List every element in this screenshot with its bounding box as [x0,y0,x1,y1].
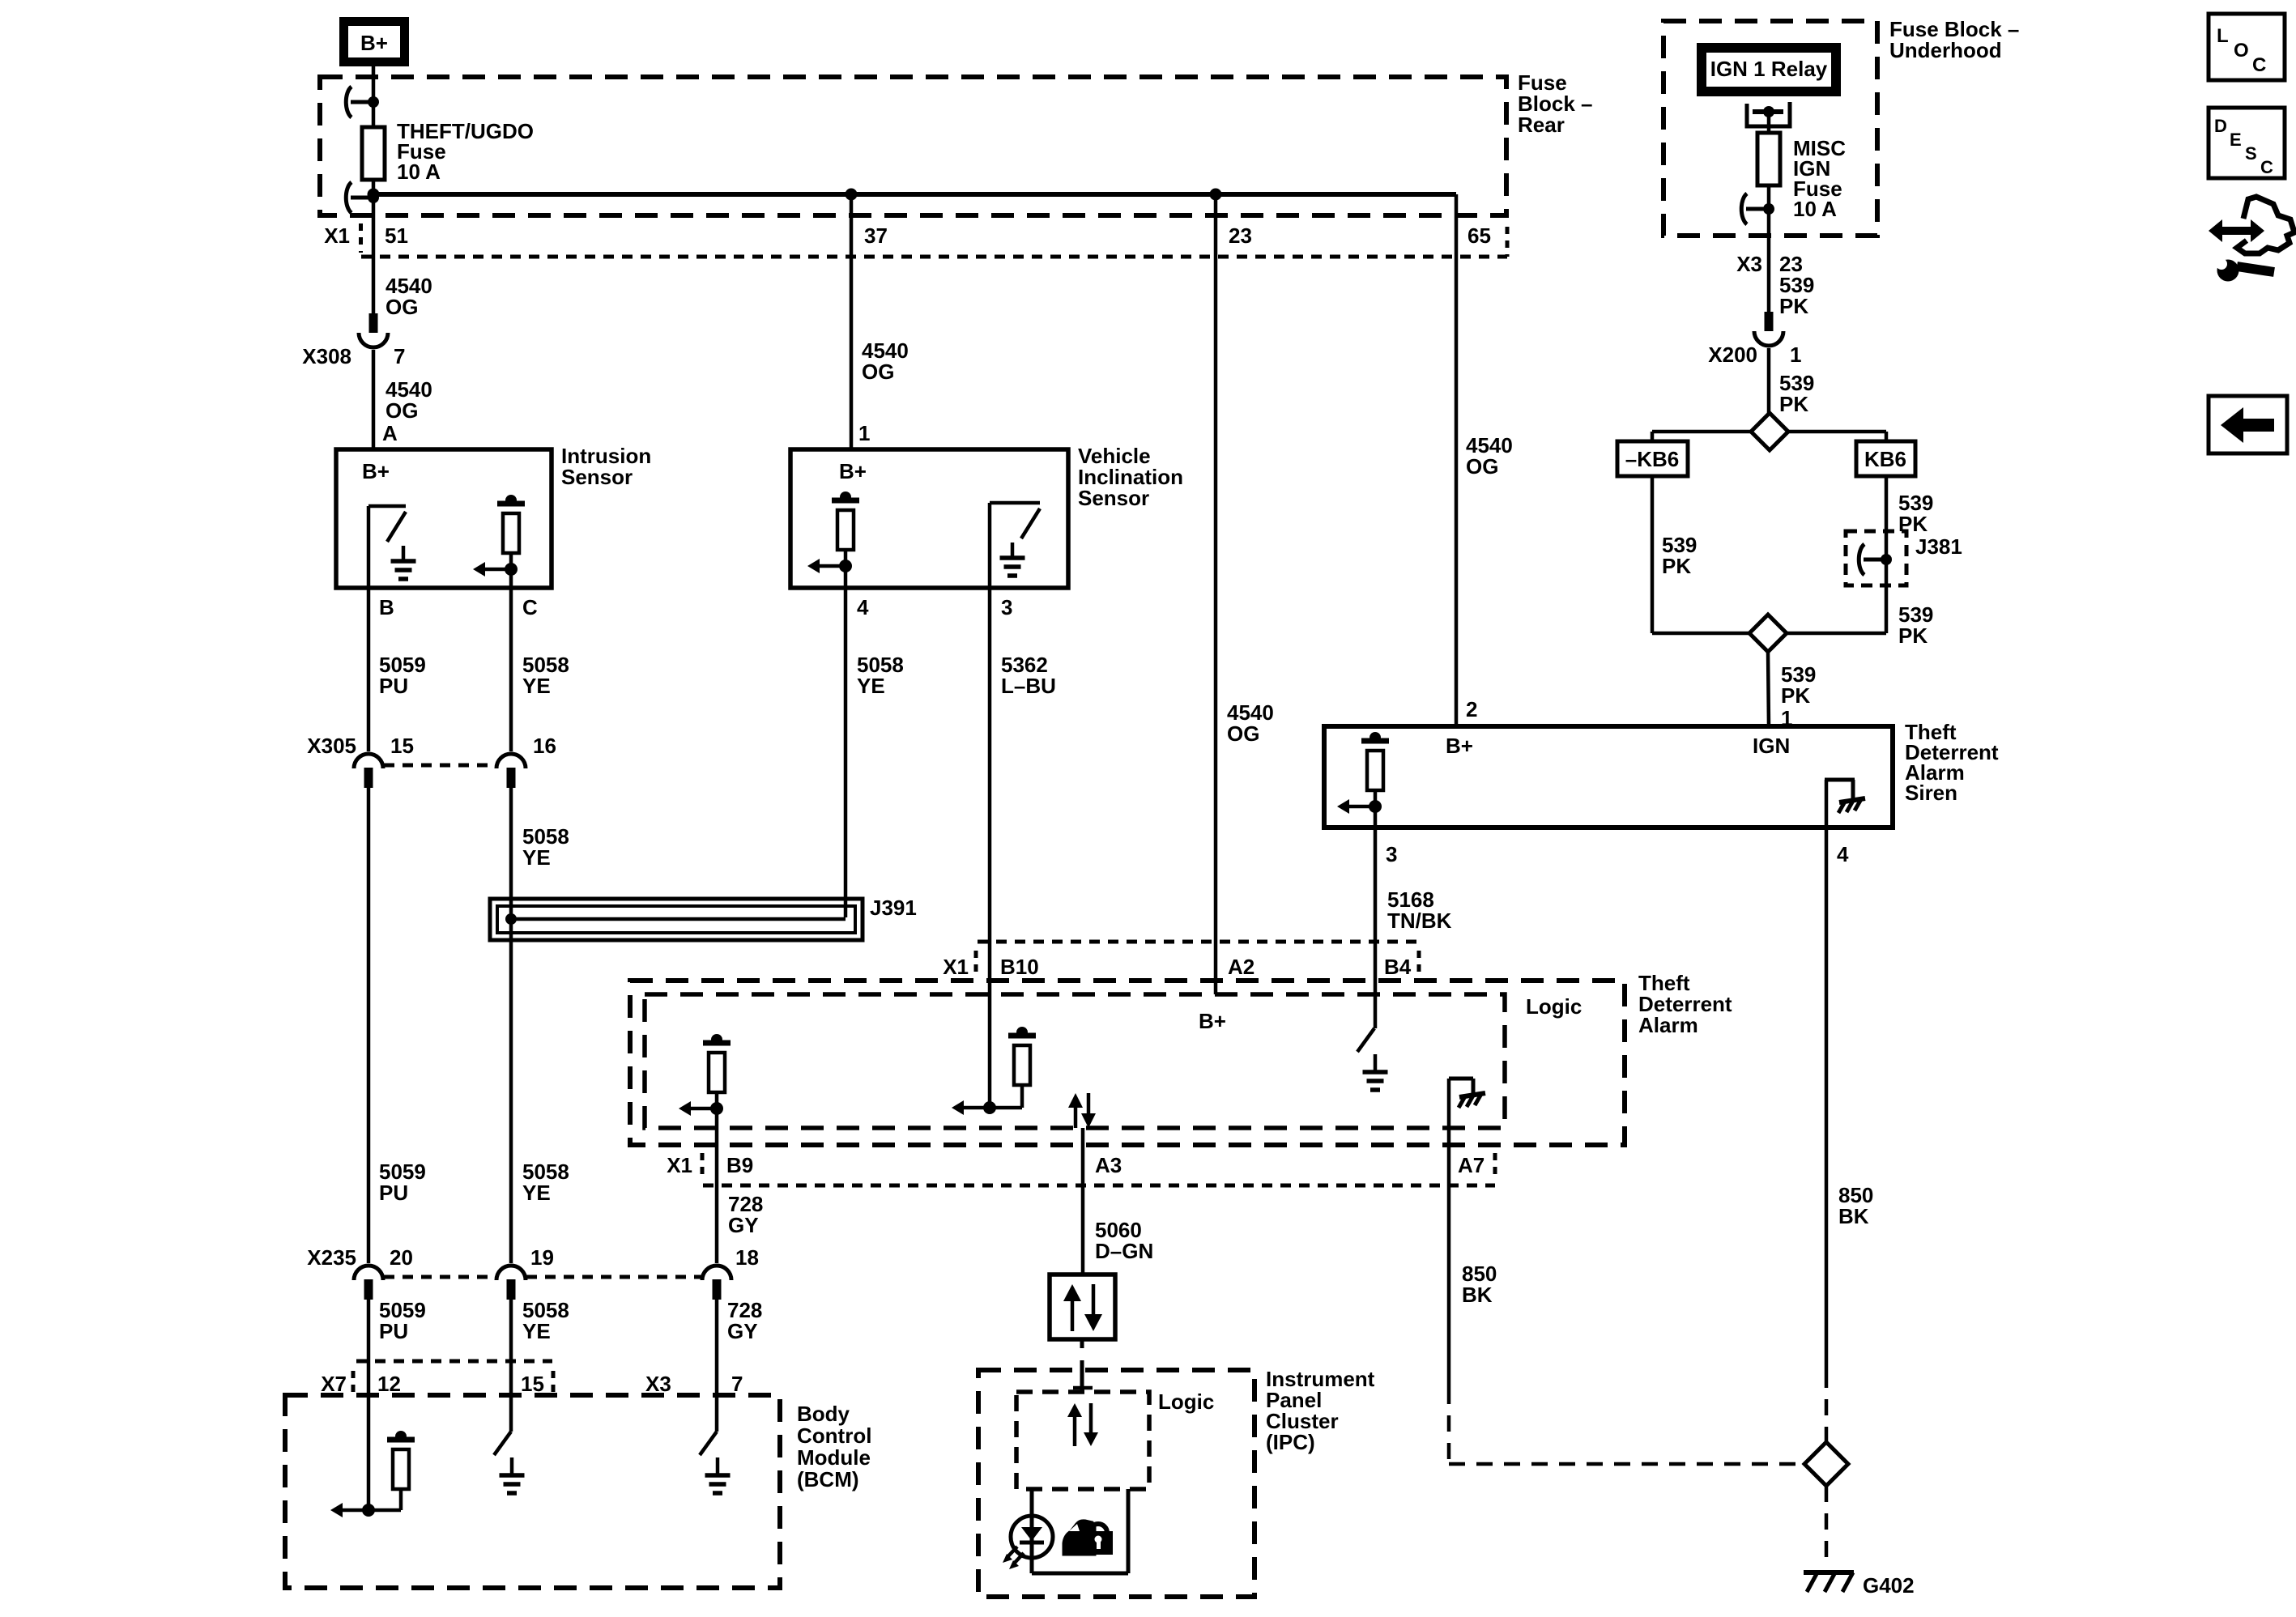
svg-text:C: C [522,595,538,619]
svg-text:PK: PK [1779,294,1808,318]
svg-text:X7: X7 [321,1372,347,1396]
svg-text:X3: X3 [645,1372,671,1396]
car diagnostic icon [2237,197,2294,253]
separator right of X1 [701,1153,705,1181]
inline connector X308 [369,313,378,333]
svg-text:7: 7 [394,344,405,368]
IPC LED [1011,1516,1053,1558]
svg-text:PK: PK [1779,392,1808,416]
wire relay to MISC IGN fuse [1767,112,1771,133]
svg-text:GY: GY [728,1213,759,1237]
svg-text:PK: PK [1898,623,1928,648]
svg-text:(IPC): (IPC) [1266,1430,1315,1454]
separator left of B10 [974,951,978,973]
svg-text:A: A [382,421,398,445]
wire 539 PK X200 to splice diamond [1767,348,1771,414]
svg-text:A3: A3 [1095,1153,1122,1177]
wire 5059 PU X305 to X235 [367,787,371,1263]
wire to -KB6 [1652,430,1751,434]
inline connector X235-20 [354,1266,383,1280]
intrusion internal switch to ground [367,506,371,588]
wire 539 PK J381 down [1885,585,1889,633]
separator right of X7 [351,1371,356,1394]
svg-text:Control: Control [797,1423,871,1448]
ground G402 [1804,1570,1854,1575]
svg-text:YE: YE [522,674,551,698]
svg-text:OG: OG [1227,721,1259,746]
svg-text:D–GN: D–GN [1095,1239,1153,1263]
svg-text:1: 1 [1790,343,1801,367]
wire 5059 PU X235 to BCM [367,1299,371,1510]
BCM resistor with arrow pin 12 [387,1437,415,1443]
svg-text:10 A: 10 A [397,160,441,184]
svg-text:YE: YE [522,1181,551,1205]
inline connector X235-18 [702,1266,731,1280]
svg-text:15: 15 [390,734,414,758]
wire B9 down [715,1108,719,1263]
wire 4540 OG from X1-51 [372,194,376,315]
svg-text:OG: OG [386,295,418,319]
svg-text:PU: PU [379,1181,408,1205]
svg-text:16: 16 [533,734,556,758]
cross tick into IPC [1080,1360,1084,1391]
junction dot wire 23 [1210,189,1222,201]
svg-text:KB6: KB6 [1864,447,1906,471]
Theft Deterrent Alarm outer dashed box [630,981,1625,1145]
svg-text:20: 20 [390,1245,413,1270]
svg-text:B+: B+ [360,31,388,55]
svg-text:4: 4 [857,595,869,619]
BCM switch to ground pin 7 [700,1432,717,1455]
fuse THEFT/UGDO 10A [362,127,385,180]
X305 dashed link [384,764,496,768]
svg-text:B10: B10 [1000,955,1039,979]
VIS internal switch to ground [988,503,992,588]
splice diamond G402 [1804,1442,1848,1486]
logic double arrows A3 [1074,1108,1078,1128]
separator right of B4 [1417,951,1421,973]
svg-text:12: 12 [377,1372,401,1396]
power symbol B+ box [344,22,405,62]
wire 5059 PU pin B to X305-15 [367,588,371,751]
svg-text:OG: OG [386,398,418,423]
svg-text:OG: OG [1466,454,1498,479]
inline connector X200 [1765,312,1774,331]
wire fuse to bus [372,180,376,194]
row X7 dotted line [356,1360,552,1364]
clip below THEFT/UGDO fuse [346,182,351,213]
separator right of A7 [1493,1153,1497,1181]
wire 5058 YE pin 4 to J391 [844,588,848,917]
svg-text:IGN: IGN [1753,734,1790,758]
row B10 A2 B4 dotted line [978,940,1419,944]
svg-text:X235: X235 [307,1245,356,1270]
wire 5058 YE pin C to X305-16 [509,588,513,751]
svg-text:Sensor: Sensor [1078,486,1149,510]
svg-text:Body: Body [797,1402,850,1426]
wire 539 PK KB6 to J381 [1885,476,1889,531]
svg-text:A7: A7 [1458,1153,1485,1177]
svg-text:15: 15 [521,1372,544,1396]
svg-text:Rear: Rear [1518,113,1565,137]
svg-text:B+: B+ [839,459,867,483]
Instrument Panel Cluster dashed box [978,1370,1254,1597]
splice diamond lower [1652,632,1749,636]
svg-text:Underhood: Underhood [1889,38,2002,62]
wire to KB6 [1788,430,1886,434]
svg-text:Logic: Logic [1526,994,1582,1019]
Logic inner dashed box [645,994,1505,1128]
svg-text:2: 2 [1466,697,1477,721]
svg-text:37: 37 [864,223,888,248]
Body Control Module dashed box [285,1395,780,1588]
svg-text:PU: PU [379,674,408,698]
wire 5058 YE X305 to J391 to X235 [509,787,513,1263]
svg-text:4: 4 [1837,842,1849,866]
wire 539 PK -KB6 down [1651,476,1655,633]
VIS internal resistor with arrow [832,498,859,504]
BCM switch to ground pin 15 [494,1432,511,1455]
wire 850 BK pin 4 down [1825,828,1829,1372]
Fuse Block - Rear dashed box [320,77,1506,215]
svg-text:E: E [2230,130,2242,150]
wire 728 GY X235 to BCM [715,1299,719,1432]
inline connector X305-16 [496,754,526,768]
svg-text:X308: X308 [302,344,351,368]
LOC icon box [2209,14,2285,80]
svg-text:51: 51 [385,223,408,248]
splice diamond upper [1751,413,1788,450]
Intrusion Sensor box [336,449,552,588]
svg-text:10 A: 10 A [1793,197,1837,221]
svg-text:X1: X1 [324,223,350,248]
wire 4540 OG bus to A2 [1214,194,1218,994]
svg-text:–KB6: –KB6 [1625,447,1679,471]
svg-text:A2: A2 [1228,955,1254,979]
svg-text:18: 18 [735,1245,759,1270]
svg-text:X1: X1 [667,1153,692,1177]
svg-text:G402: G402 [1863,1573,1915,1598]
svg-text:YE: YE [857,674,885,698]
logic resistor with arrow B9 [703,1040,731,1046]
svg-text:19: 19 [530,1245,554,1270]
wire 5168 TN/BK pin 3 to B4 [1374,828,1378,1028]
wire B+ to fuse [372,66,376,127]
svg-text:L–BU: L–BU [1001,674,1056,698]
splice pack J391 box [490,899,863,940]
svg-text:Siren: Siren [1905,781,1957,805]
svg-text:B+: B+ [362,459,390,483]
X235 dashed links [384,1275,496,1279]
separator right of 15 [552,1371,556,1394]
wire 850 BK A7 dashed [1447,1388,1451,1464]
relay contact cup [1747,102,1790,126]
row B9 A3 A7 dotted line [703,1184,1495,1188]
svg-text:L: L [2217,25,2229,47]
svg-text:B+: B+ [1199,1009,1226,1033]
svg-text:O: O [2234,40,2249,62]
svg-text:YE: YE [522,845,551,870]
right separator dotted [1506,227,1510,257]
IGN 1 Relay box [1702,48,1836,91]
svg-text:Sensor: Sensor [561,465,633,489]
svg-text:B4: B4 [1384,955,1412,979]
wire 5058 YE X235 to BCM [509,1299,513,1432]
svg-text:Alarm: Alarm [1638,1013,1698,1037]
clip inside J381 [1859,544,1864,575]
Vehicle Inclination Sensor box [790,449,1068,588]
wire 539 PK X3-23 [1767,236,1771,313]
svg-text:65: 65 [1467,223,1491,248]
logic resistor with arrow B10 [1008,1033,1036,1039]
wire 5362 L-BU pin 3 to B10 [988,588,992,1108]
DESC icon box [2209,108,2285,178]
logic chassis ground A7 [1447,1079,1451,1388]
svg-text:YE: YE [522,1319,551,1343]
svg-text:TN/BK: TN/BK [1387,908,1452,933]
wire A3 down [1081,1128,1085,1274]
junction dot at fuse output [368,189,380,201]
clip below MISC IGN fuse [1767,185,1771,236]
connector row X1 dotted line [361,255,1507,259]
LED light arrows [1007,1547,1017,1558]
svg-text:1: 1 [858,421,870,445]
splice J381 dashed box [1846,531,1906,585]
svg-text:7: 7 [731,1372,743,1396]
svg-text:23: 23 [1229,223,1252,248]
IPC Logic dashed box [1016,1392,1149,1489]
svg-text:B9: B9 [726,1153,753,1177]
X1 separator dotted [359,223,363,253]
svg-text:C: C [2260,157,2273,177]
svg-text:B: B [379,595,394,619]
wire 4540 OG bus to VIS pin 1 [850,194,854,449]
logic switch to ground B4 [1357,1028,1374,1052]
svg-text:X305: X305 [307,734,356,758]
fuse MISC IGN 10A [1757,133,1780,185]
svg-text:X1: X1 [943,955,969,979]
inline connector X305-15 [354,754,383,768]
svg-text:Module: Module [797,1445,871,1470]
svg-text:3: 3 [1001,595,1012,619]
-KB6 box [1617,441,1688,476]
svg-text:J381: J381 [1915,534,1962,559]
svg-text:BK: BK [1462,1283,1493,1307]
IPC indicator loop wire [1030,1489,1034,1573]
wire 539 PK to siren pin 1 [1768,652,1769,726]
svg-text:BK: BK [1838,1204,1869,1228]
IPC logic double arrows [1073,1417,1077,1446]
svg-text:GY: GY [727,1319,758,1343]
svg-text:PK: PK [1781,683,1810,708]
svg-text:X3: X3 [1736,252,1762,276]
svg-text:Logic: Logic [1158,1389,1214,1414]
siren internal resistor with arrow [1361,738,1389,744]
svg-text:OG: OG [862,360,894,384]
svg-text:3: 3 [1386,842,1397,866]
back arrow icon box [2209,396,2287,453]
svg-text:C: C [2252,54,2266,76]
Fuse Block - Underhood dashed box [1663,21,1877,236]
svg-text:(BCM): (BCM) [797,1467,859,1491]
junction dot wire 37 [846,189,858,201]
wire 4540 OG pin 65 to siren pin 2 [1455,194,1459,726]
J391 internal bus [511,917,846,921]
dashed wire diamond to G402 [1825,1486,1829,1566]
svg-text:B+: B+ [1446,734,1473,758]
inline connector X235-19 [496,1266,526,1280]
svg-text:PU: PU [379,1319,408,1343]
bus wire from fuse to pin 65 [373,192,1456,197]
Theft Deterrent Alarm Siren box [1324,726,1893,828]
wire 850 BK siren dashed [1825,1372,1829,1442]
svg-text:J391: J391 [870,896,917,920]
svg-text:S: S [2245,143,2257,164]
svg-text:D: D [2214,116,2227,136]
wire 4540 OG to sensor pin A [372,350,376,449]
boxed double arrows A3 to IPC [1050,1274,1115,1339]
J391 junction dot [505,913,517,925]
intrusion internal resistor with arrow [497,501,525,507]
clip above THEFT/UGDO fuse [346,87,351,117]
siren internal chassis ground [1825,780,1829,828]
svg-text:X200: X200 [1708,343,1757,367]
KB6 box [1856,441,1915,476]
car with lock icon [1063,1521,1095,1555]
svg-text:PK: PK [1662,554,1691,578]
svg-text:IGN 1 Relay: IGN 1 Relay [1710,57,1828,81]
dashed wire to G402 diamond [1449,1462,1804,1466]
